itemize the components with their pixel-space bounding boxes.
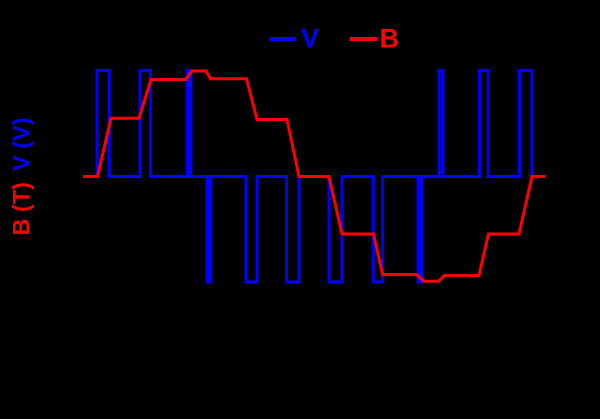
V thick pulse up (solid) at x~186-192	[186, 69, 193, 178]
V thick pulse down (solid) at x~416-425	[417, 175, 424, 284]
svg-text:B: B	[380, 24, 400, 54]
legend B sample line (red)	[350, 37, 377, 41]
legend V sample line (blue)	[269, 37, 296, 41]
svg-text:V: V	[301, 24, 319, 54]
V thick pulse down (solid) at x~206-213	[206, 175, 212, 284]
V waveform (blue square-wave trace)	[83, 71, 545, 282]
B waveform (red stepped trace)	[83, 71, 545, 281]
svg-text:B (T) V (V): B (T) V (V)	[8, 117, 34, 235]
